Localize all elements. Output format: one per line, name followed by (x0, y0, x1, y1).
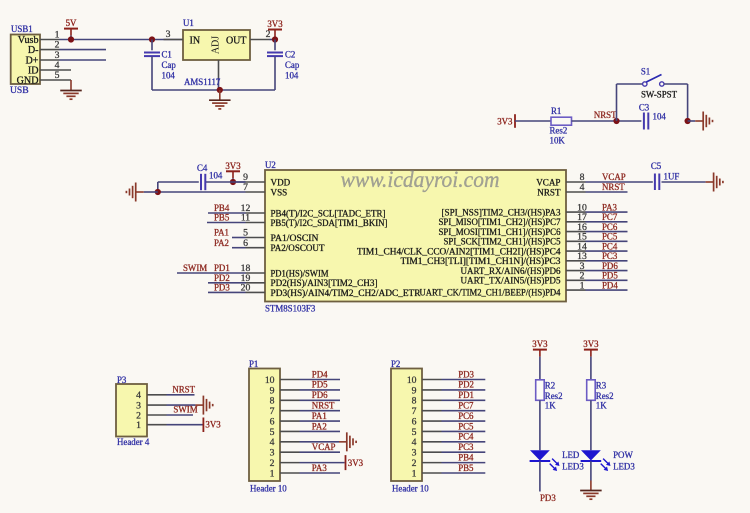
svg-text:PC7: PC7 (602, 212, 618, 222)
svg-text:P2: P2 (391, 359, 400, 369)
svg-text:PD6: PD6 (602, 261, 618, 271)
svg-text:PC5: PC5 (602, 232, 618, 242)
svg-text:2: 2 (270, 458, 275, 469)
svg-text:USB: USB (10, 85, 29, 96)
svg-text:SWIM: SWIM (183, 263, 207, 273)
svg-text:VCAP: VCAP (312, 442, 336, 452)
svg-text:R1: R1 (551, 106, 561, 116)
svg-text:R3: R3 (596, 380, 607, 390)
svg-text:PB5: PB5 (214, 213, 230, 223)
svg-text:1: 1 (270, 468, 275, 479)
svg-text:[SPI_NSS]TIM2_CH3/(HS)PA3: [SPI_NSS]TIM2_CH3/(HS)PA3 (442, 208, 561, 218)
svg-text:PA1: PA1 (214, 228, 229, 238)
svg-text:3: 3 (270, 448, 275, 459)
svg-text:SWIM: SWIM (173, 405, 197, 415)
svg-text:SW-SPST: SW-SPST (641, 89, 678, 99)
svg-text:C4: C4 (197, 163, 208, 173)
svg-text:20: 20 (241, 283, 251, 294)
svg-text:104: 104 (162, 71, 176, 81)
svg-text:5: 5 (412, 427, 417, 438)
svg-text:OUT: OUT (226, 35, 247, 46)
svg-text:1UF: 1UF (664, 171, 680, 181)
svg-text:PC6: PC6 (602, 222, 618, 232)
svg-text:1K: 1K (596, 400, 607, 410)
svg-text:7: 7 (412, 406, 417, 417)
svg-text:C5: C5 (651, 161, 662, 171)
svg-text:GND: GND (17, 76, 39, 87)
svg-text:PD5: PD5 (312, 380, 328, 390)
svg-text:NRST: NRST (537, 187, 561, 197)
svg-text:104: 104 (285, 71, 299, 81)
svg-text:5V: 5V (66, 18, 77, 28)
svg-text:4: 4 (580, 182, 585, 193)
svg-text:PC5: PC5 (458, 421, 474, 431)
svg-text:www.icdayroi.com: www.icdayroi.com (341, 167, 500, 192)
svg-text:PD4: PD4 (312, 369, 328, 379)
svg-text:PC6: PC6 (458, 411, 474, 421)
svg-text:NRST: NRST (602, 182, 625, 192)
svg-text:PB4: PB4 (458, 452, 474, 462)
svg-text:POW: POW (613, 450, 633, 460)
svg-text:10: 10 (265, 375, 275, 386)
svg-text:PD2: PD2 (458, 380, 474, 390)
svg-text:PD6: PD6 (312, 390, 328, 400)
svg-text:Cap: Cap (285, 60, 300, 70)
svg-text:8: 8 (270, 396, 275, 407)
svg-text:3V3: 3V3 (348, 458, 364, 468)
svg-text:NRST: NRST (594, 110, 617, 120)
svg-text:104: 104 (209, 170, 223, 180)
svg-text:11: 11 (241, 213, 250, 224)
svg-text:7: 7 (270, 406, 275, 417)
svg-text:2: 2 (412, 458, 417, 469)
svg-text:TIM1_CH4/CLK_CCO/AIN2[TIM1_CH2: TIM1_CH4/CLK_CCO/AIN2[TIM1_CH2I]/(HS)PC4 (357, 247, 561, 257)
svg-text:PD1(HS)/SWIM: PD1(HS)/SWIM (271, 268, 329, 278)
svg-text:PD1: PD1 (214, 263, 230, 273)
svg-text:PD3(HS)/AIN4/TIM2_CH2/ADC_ETR: PD3(HS)/AIN4/TIM2_CH2/ADC_ETR (271, 288, 422, 298)
svg-text:PD2: PD2 (214, 273, 230, 283)
svg-text:IN: IN (190, 35, 201, 46)
svg-text:6: 6 (412, 416, 417, 427)
svg-text:8: 8 (412, 396, 417, 407)
svg-text:C1: C1 (162, 50, 172, 60)
svg-text:PA2/OSCOUT: PA2/OSCOUT (271, 243, 325, 253)
svg-text:PB5: PB5 (458, 463, 474, 473)
svg-text:9: 9 (412, 385, 417, 396)
svg-text:PA1/OSCIN: PA1/OSCIN (271, 233, 319, 243)
svg-text:4: 4 (270, 437, 275, 448)
svg-text:1K: 1K (545, 400, 556, 410)
svg-text:SPI_MISO[TIM1_CH2]/(HS)PC7: SPI_MISO[TIM1_CH2]/(HS)PC7 (439, 217, 561, 227)
svg-text:USB1: USB1 (11, 24, 33, 34)
svg-text:Res2: Res2 (550, 125, 568, 135)
svg-text:PA2: PA2 (312, 421, 327, 431)
svg-text:VCAP: VCAP (602, 172, 626, 182)
svg-text:3V3: 3V3 (583, 339, 599, 349)
svg-text:PC3: PC3 (458, 442, 474, 452)
svg-text:4: 4 (412, 437, 417, 448)
svg-text:R2: R2 (545, 380, 555, 390)
svg-text:P1: P1 (249, 359, 258, 369)
svg-text:5: 5 (55, 70, 60, 81)
svg-text:LED3: LED3 (613, 461, 635, 471)
svg-text:PD2(HS)/AIN3[TIM2_CH3]: PD2(HS)/AIN3[TIM2_CH3] (271, 278, 378, 288)
svg-text:10: 10 (407, 375, 417, 386)
svg-text:1: 1 (136, 420, 141, 431)
svg-text:3V3: 3V3 (497, 116, 513, 126)
svg-text:3V3: 3V3 (267, 19, 283, 29)
svg-text:Header 10: Header 10 (250, 483, 287, 493)
svg-text:NRST: NRST (312, 400, 335, 410)
svg-text:9: 9 (270, 385, 275, 396)
svg-text:PB4: PB4 (214, 203, 230, 213)
svg-text:PD1: PD1 (458, 390, 474, 400)
svg-text:PA2: PA2 (214, 238, 229, 248)
svg-text:U1: U1 (183, 18, 194, 28)
svg-text:P3: P3 (117, 375, 127, 385)
svg-text:1: 1 (580, 280, 585, 291)
svg-text:7: 7 (243, 182, 248, 193)
svg-text:NRST: NRST (172, 384, 195, 394)
svg-text:AMS1117: AMS1117 (184, 77, 221, 87)
svg-text:6: 6 (270, 416, 275, 427)
svg-text:PD4: PD4 (602, 280, 618, 290)
svg-text:PD3: PD3 (214, 283, 230, 293)
svg-text:UART_CK/TIM2_CH1/BEEP/(HS)PD4: UART_CK/TIM2_CH1/BEEP/(HS)PD4 (420, 287, 561, 297)
svg-text:SPI_MOSI[TIM1_CH1]/(HS)PC6: SPI_MOSI[TIM1_CH1]/(HS)PC6 (439, 227, 561, 237)
svg-text:PD3: PD3 (458, 369, 474, 379)
svg-text:Header 4: Header 4 (117, 437, 150, 447)
svg-text:VCAP: VCAP (536, 177, 560, 187)
svg-text:3V3: 3V3 (532, 339, 548, 349)
svg-text:1: 1 (412, 468, 417, 479)
svg-text:D-: D- (28, 45, 39, 56)
svg-text:10K: 10K (550, 135, 566, 145)
svg-text:U2: U2 (265, 160, 276, 170)
svg-text:PC3: PC3 (602, 251, 618, 261)
svg-text:PC7: PC7 (458, 400, 474, 410)
svg-text:2: 2 (266, 29, 271, 40)
svg-text:ADJ: ADJ (211, 36, 222, 54)
svg-text:PC4: PC4 (458, 432, 474, 442)
svg-text:PD5: PD5 (602, 271, 618, 281)
svg-text:2: 2 (55, 39, 60, 50)
svg-text:LED: LED (562, 450, 580, 460)
svg-text:PD3: PD3 (540, 493, 556, 503)
svg-text:TIM1_CH3[TLI][TIM1_CH1N]/(HS)P: TIM1_CH3[TLI][TIM1_CH1N]/(HS)PC3 (401, 256, 561, 266)
svg-text:PB4(T)/I2C_SCL[TADC_ETR]: PB4(T)/I2C_SCL[TADC_ETR] (271, 208, 386, 218)
svg-text:SPI_SCK[TIM2_CH1]/(HS)PC5: SPI_SCK[TIM2_CH1]/(HS)PC5 (444, 237, 561, 247)
svg-text:3: 3 (166, 29, 171, 40)
svg-text:VSS: VSS (271, 187, 288, 197)
svg-text:PC4: PC4 (602, 241, 618, 251)
svg-text:VDD: VDD (271, 177, 291, 187)
svg-text:3V3: 3V3 (225, 161, 241, 171)
svg-text:C2: C2 (285, 50, 295, 60)
svg-text:C3: C3 (639, 103, 650, 113)
svg-text:PA3: PA3 (602, 202, 618, 212)
svg-text:PA3: PA3 (312, 463, 328, 473)
svg-text:3V3: 3V3 (205, 420, 221, 430)
svg-text:PB5(T)/I2C_SDA[TIM1_BKIN]: PB5(T)/I2C_SDA[TIM1_BKIN] (271, 218, 388, 228)
svg-text:UART_TX/AIN5/(HS)PD5: UART_TX/AIN5/(HS)PD5 (461, 276, 561, 286)
svg-text:STM8S103F3: STM8S103F3 (265, 304, 316, 314)
svg-text:LED3: LED3 (562, 461, 584, 471)
svg-text:PA1: PA1 (312, 411, 327, 421)
svg-text:104: 104 (653, 111, 667, 121)
svg-text:Cap: Cap (162, 60, 177, 70)
svg-text:5: 5 (270, 427, 275, 438)
svg-text:S1: S1 (641, 66, 650, 76)
svg-text:UART_RX/AIN6/(HS)PD6: UART_RX/AIN6/(HS)PD6 (461, 266, 561, 276)
svg-text:Header 10: Header 10 (392, 483, 429, 493)
svg-text:3: 3 (412, 448, 417, 459)
svg-text:6: 6 (243, 238, 248, 249)
